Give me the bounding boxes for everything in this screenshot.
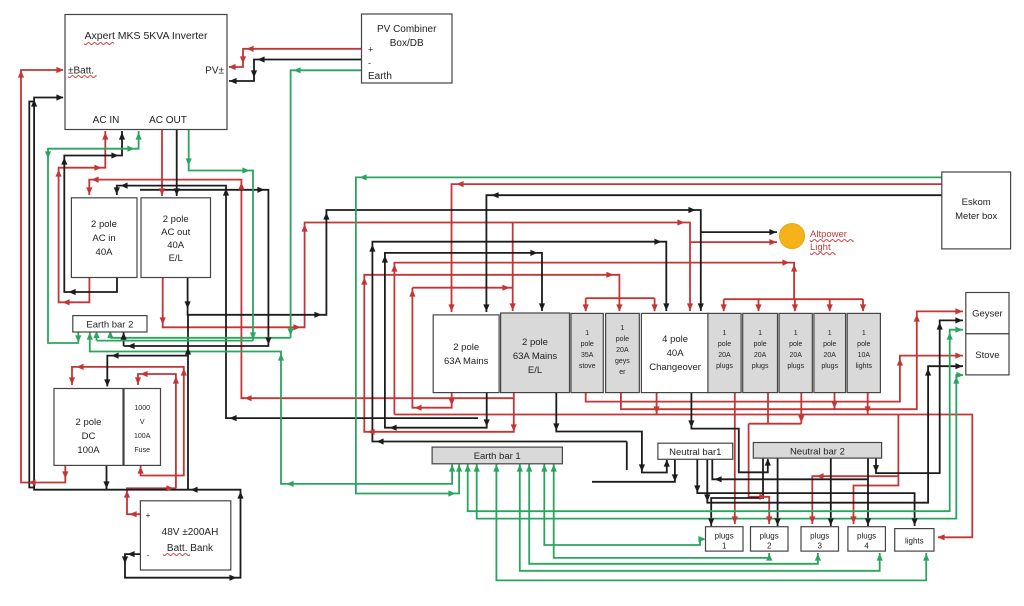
svg-text:pole: pole [789,341,802,348]
svg-text:AC in: AC in [92,233,115,244]
svg-text:1: 1 [722,542,727,551]
svg-text:er: er [619,369,626,376]
svg-text:Earth: Earth [368,71,392,82]
svg-text:pole: pole [857,341,870,348]
svg-text:20A: 20A [616,347,629,354]
svg-text:4: 4 [864,542,869,551]
svg-text:Meter box: Meter box [955,211,997,222]
svg-text:20A: 20A [718,352,731,359]
svg-text:DC: DC [82,431,96,442]
svg-text:Eskom: Eskom [962,197,991,208]
svg-text:Changeover: Changeover [649,362,701,373]
svg-text:plugs: plugs [787,363,804,370]
svg-text:100A: 100A [134,433,151,440]
svg-text:20A: 20A [789,352,802,359]
svg-text:Altpower: Altpower [810,229,847,240]
svg-text:PV Combiner: PV Combiner [377,24,437,35]
svg-text:+: + [146,510,151,520]
svg-text:plugs: plugs [821,363,838,370]
svg-text:pole: pole [581,341,594,348]
svg-text:Light: Light [810,242,831,253]
svg-text:Neutral bar1: Neutral bar1 [669,447,721,458]
svg-text:pole: pole [753,341,766,348]
svg-text:2 pole: 2 pole [522,337,548,348]
svg-text:1: 1 [862,330,866,337]
svg-text:plugs: plugs [715,532,734,541]
svg-text:63A Mains: 63A Mains [444,356,489,367]
svg-text:20A: 20A [754,352,767,359]
svg-text:AC IN: AC IN [93,115,120,126]
svg-text:Box/DB: Box/DB [390,38,424,49]
svg-text:1: 1 [758,330,762,337]
svg-text:3: 3 [817,542,822,551]
svg-text:Fuse: Fuse [134,447,150,454]
svg-text:plugs: plugs [810,532,829,541]
svg-text:-: - [368,58,371,68]
svg-text:±Batt.: ±Batt. [68,66,94,77]
svg-text:PV±: PV± [205,66,224,77]
svg-text:Geyser: Geyser [972,309,1003,320]
svg-text:plugs: plugs [716,363,733,370]
svg-text:Batt. Bank: Batt. Bank [167,543,214,554]
svg-text:1000: 1000 [134,405,150,412]
svg-text:V: V [140,419,145,426]
svg-text:Neutral bar 2: Neutral bar 2 [790,447,845,458]
svg-text:Axpert MKS 5KVA Inverter: Axpert MKS 5KVA Inverter [85,30,208,42]
svg-text:pole: pole [718,341,731,348]
svg-text:pole: pole [616,336,629,343]
svg-text:4 pole: 4 pole [662,334,688,345]
svg-text:2 pole: 2 pole [76,417,102,428]
svg-text:E/L: E/L [169,253,183,264]
svg-text:63A Mains: 63A Mains [513,351,558,362]
svg-text:35A: 35A [581,352,594,359]
svg-text:pole: pole [823,341,836,348]
svg-text:10A: 10A [858,352,871,359]
svg-text:-: - [147,550,150,560]
svg-text:1: 1 [585,330,589,337]
svg-text:+: + [368,45,373,55]
svg-text:1: 1 [828,330,832,337]
svg-text:lights: lights [856,363,873,370]
svg-text:AC OUT: AC OUT [149,115,187,126]
svg-text:stove: stove [579,363,596,370]
svg-text:1: 1 [723,330,727,337]
svg-text:1: 1 [794,330,798,337]
svg-text:40A: 40A [667,348,685,359]
svg-text:100A: 100A [77,445,100,456]
svg-text:Earth bar 1: Earth bar 1 [474,451,521,462]
svg-text:2 pole: 2 pole [163,214,189,225]
svg-text:lights: lights [905,537,924,546]
svg-text:plugs: plugs [760,532,779,541]
svg-text:1: 1 [620,325,624,332]
svg-text:geys: geys [615,358,630,365]
svg-text:plugs: plugs [857,532,876,541]
svg-text:2 pole: 2 pole [91,219,117,230]
svg-text:plugs: plugs [752,363,769,370]
svg-text:E/L: E/L [528,365,542,376]
svg-text:AC out: AC out [161,227,190,238]
svg-text:48V ±200AH: 48V ±200AH [162,527,219,538]
svg-text:40A: 40A [96,247,114,258]
svg-text:Earth bar 2: Earth bar 2 [86,320,133,331]
svg-text:20A: 20A [823,352,836,359]
svg-text:2 pole: 2 pole [453,342,479,353]
svg-text:40A: 40A [167,240,185,251]
svg-text:2: 2 [767,542,772,551]
svg-text:Stove: Stove [975,350,999,361]
